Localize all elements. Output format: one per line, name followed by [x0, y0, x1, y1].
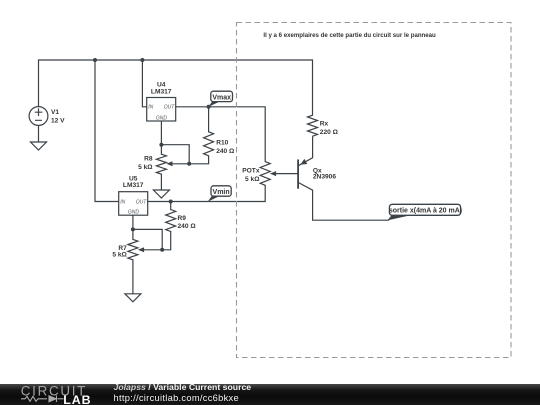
svg-text:GND: GND: [128, 210, 140, 216]
svg-text:Rx: Rx: [320, 121, 329, 128]
ground under R7: [125, 294, 141, 302]
node flag sortie: [387, 204, 462, 220]
wire U4 OUT to POTx top: [176, 107, 266, 162]
svg-text:2N3906: 2N3906: [313, 174, 336, 181]
svg-text:5 kΩ: 5 kΩ: [138, 164, 153, 171]
annotation dashed box: [237, 23, 512, 358]
potentiometer R7: [112, 239, 144, 259]
transistor Qx 2N3906: [298, 136, 336, 190]
junction node dots: [93, 58, 211, 252]
regulator U4 LM317: [147, 82, 176, 122]
wire R10 top lead: [208, 107, 210, 132]
wire U4 GND lead: [160, 121, 162, 145]
svg-text:5 kΩ: 5 kΩ: [245, 176, 260, 183]
footer text: [114, 382, 252, 404]
svg-text:12 V: 12 V: [51, 118, 65, 125]
resistor Rx: [308, 115, 318, 136]
wire loop U4 GND to R8 wiper: [161, 145, 189, 164]
wire R7 bottom lead: [132, 260, 134, 294]
svg-text:OUT: OUT: [136, 199, 148, 205]
svg-text:R8: R8: [144, 155, 153, 162]
voltage source V1: [29, 107, 48, 126]
wire top bus: [39, 60, 313, 115]
svg-text:Vmin: Vmin: [213, 189, 230, 196]
regulator U5 LM317: [119, 175, 148, 215]
resistor R9: [166, 210, 176, 232]
CircuitLab logo: [0, 384, 100, 405]
node flag Vmax: [208, 91, 232, 107]
ground under V1: [31, 142, 47, 150]
svg-text:R10: R10: [216, 139, 228, 146]
wire R7 top lead: [132, 229, 134, 239]
svg-text:OUT: OUT: [164, 105, 176, 111]
svg-text:LM317: LM317: [151, 88, 172, 95]
wire R9 top lead: [170, 202, 172, 210]
wire R10 bottom lead: [189, 156, 208, 164]
wire drop to U4 IN: [142, 60, 146, 107]
svg-text:sortie x(4mA à 20 mA): sortie x(4mA à 20 mA): [389, 208, 462, 215]
svg-text:LAB: LAB: [63, 393, 91, 405]
resistor R10: [204, 132, 214, 156]
svg-text:Il y a 6 exemplaires de cette: Il y a 6 exemplaires de cette partie du …: [263, 32, 436, 39]
wire R8 top lead: [160, 145, 162, 155]
wire left drop to U5 IN: [95, 60, 119, 202]
svg-text:5 kΩ: 5 kΩ: [112, 251, 127, 258]
potentiometer R8: [138, 154, 172, 174]
svg-text:LM317: LM317: [123, 182, 144, 189]
wire R8 wiper arm: [171, 163, 189, 165]
footer bar: [0, 384, 540, 405]
svg-text:GND: GND: [156, 116, 168, 122]
wire loop U5 GND to R7 wiper: [133, 229, 162, 249]
svg-text:240 Ω: 240 Ω: [178, 223, 197, 230]
svg-text:V1: V1: [51, 109, 59, 116]
svg-text:Vmax: Vmax: [212, 94, 231, 101]
wire R7 wiper arm: [143, 249, 162, 251]
wire R8 bottom lead: [160, 174, 162, 190]
node flag Vmin: [208, 186, 232, 202]
svg-text:R9: R9: [178, 215, 187, 222]
wire Qx base from POTx wiper: [273, 173, 298, 175]
wire U5 OUT to POTx bottom: [147, 185, 265, 201]
ground under R8: [153, 190, 169, 198]
wire U5 GND lead: [132, 215, 134, 230]
svg-text:240 Ω: 240 Ω: [216, 148, 235, 155]
svg-text:IN: IN: [148, 105, 153, 111]
svg-text:POTx: POTx: [242, 167, 260, 174]
svg-text:IN: IN: [120, 199, 125, 205]
wire Qx collector out to sortie: [313, 190, 389, 220]
svg-text:220 Ω: 220 Ω: [320, 129, 339, 136]
wire V1 bottom lead: [38, 126, 40, 143]
potentiometer POTx: [242, 162, 276, 186]
wire R9 bottom lead: [162, 232, 171, 250]
